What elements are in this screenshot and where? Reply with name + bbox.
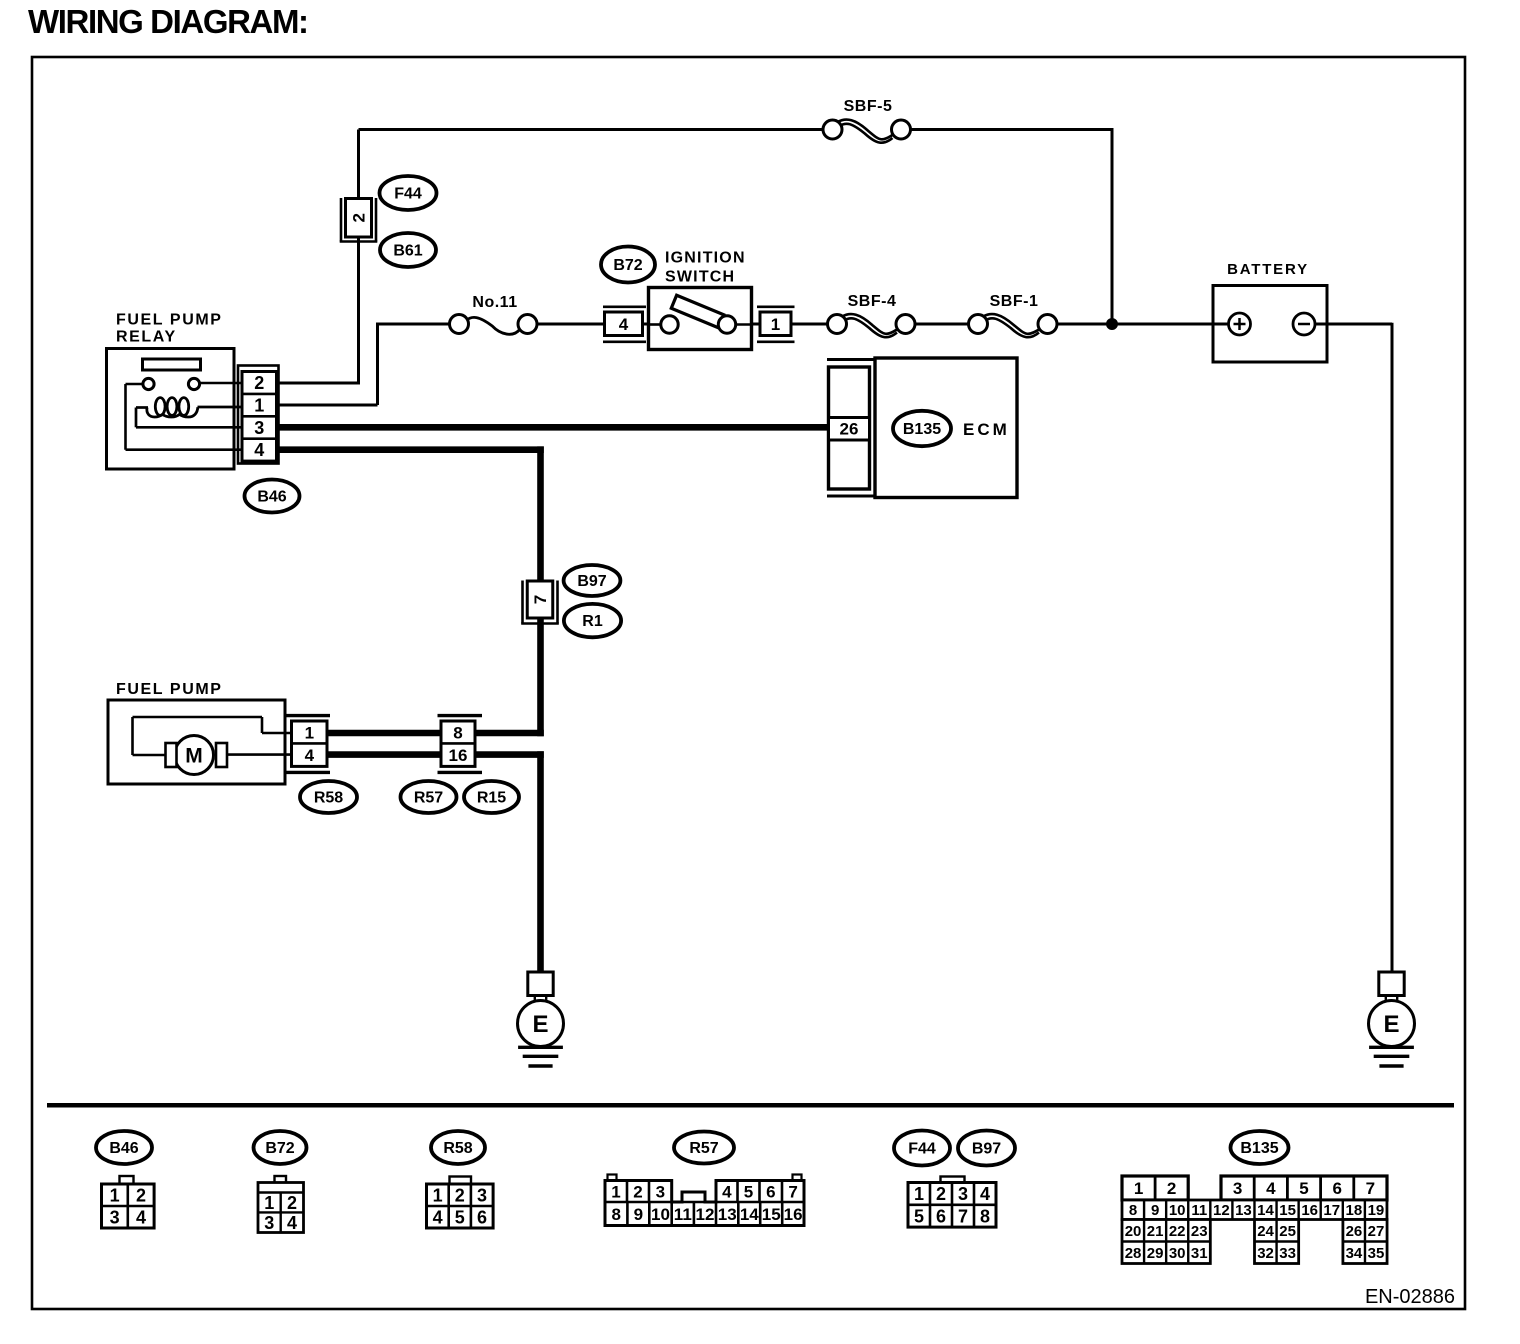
svg-text:B72: B72 xyxy=(265,1140,294,1157)
svg-text:4: 4 xyxy=(722,1183,732,1202)
svg-text:1: 1 xyxy=(433,1185,443,1205)
svg-text:F44: F44 xyxy=(394,186,422,203)
svg-text:4: 4 xyxy=(619,315,629,334)
svg-text:6: 6 xyxy=(936,1206,946,1226)
svg-text:B46: B46 xyxy=(257,489,286,506)
svg-text:34: 34 xyxy=(1346,1245,1363,1262)
svg-text:5: 5 xyxy=(1299,1179,1308,1198)
svg-text:16: 16 xyxy=(784,1205,803,1224)
svg-text:1: 1 xyxy=(914,1184,924,1204)
svg-text:2: 2 xyxy=(136,1185,146,1205)
svg-text:1: 1 xyxy=(264,1193,274,1213)
svg-text:2: 2 xyxy=(287,1193,297,1213)
svg-text:6: 6 xyxy=(766,1183,775,1202)
svg-text:11: 11 xyxy=(674,1205,692,1224)
svg-text:6: 6 xyxy=(477,1207,487,1227)
svg-text:7: 7 xyxy=(1366,1179,1375,1198)
svg-text:4: 4 xyxy=(980,1184,990,1204)
svg-text:IGNITION: IGNITION xyxy=(665,250,746,267)
svg-text:B72: B72 xyxy=(613,257,642,274)
svg-text:9: 9 xyxy=(1151,1202,1159,1219)
svg-text:17: 17 xyxy=(1323,1202,1340,1219)
svg-text:2: 2 xyxy=(1167,1179,1176,1198)
svg-text:1: 1 xyxy=(611,1183,620,1202)
svg-text:B97: B97 xyxy=(972,1141,1001,1158)
svg-text:6: 6 xyxy=(1332,1179,1341,1198)
svg-text:31: 31 xyxy=(1191,1245,1208,1262)
svg-text:FUEL PUMP: FUEL PUMP xyxy=(116,681,223,698)
svg-text:2: 2 xyxy=(633,1183,642,1202)
svg-text:35: 35 xyxy=(1368,1245,1385,1262)
svg-text:33: 33 xyxy=(1279,1245,1296,1262)
svg-text:24: 24 xyxy=(1257,1223,1274,1240)
svg-text:WIRING DIAGRAM:: WIRING DIAGRAM: xyxy=(28,3,308,40)
svg-text:8: 8 xyxy=(453,724,462,743)
svg-text:9: 9 xyxy=(634,1205,643,1224)
svg-text:12: 12 xyxy=(696,1205,715,1224)
svg-text:18: 18 xyxy=(1345,1202,1362,1219)
svg-text:26: 26 xyxy=(1346,1223,1363,1240)
svg-text:B97: B97 xyxy=(577,573,606,590)
svg-text:No.11: No.11 xyxy=(472,294,517,311)
svg-text:25: 25 xyxy=(1279,1223,1296,1240)
svg-text:27: 27 xyxy=(1368,1223,1385,1240)
svg-text:7: 7 xyxy=(958,1206,968,1226)
svg-text:16: 16 xyxy=(1301,1202,1318,1219)
svg-text:R58: R58 xyxy=(443,1140,472,1157)
svg-text:1: 1 xyxy=(305,724,314,743)
svg-text:R57: R57 xyxy=(689,1140,718,1157)
svg-text:3: 3 xyxy=(477,1185,487,1205)
svg-text:10: 10 xyxy=(1169,1202,1186,1219)
svg-text:3: 3 xyxy=(254,418,264,438)
svg-text:14: 14 xyxy=(1257,1202,1274,1219)
svg-text:4: 4 xyxy=(305,746,315,765)
svg-text:R1: R1 xyxy=(582,613,603,630)
svg-text:21: 21 xyxy=(1147,1223,1164,1240)
svg-text:8: 8 xyxy=(611,1205,620,1224)
svg-text:26: 26 xyxy=(840,420,859,439)
svg-text:10: 10 xyxy=(651,1205,670,1224)
svg-text:15: 15 xyxy=(1279,1202,1296,1219)
svg-text:32: 32 xyxy=(1257,1245,1274,1262)
svg-text:FUEL PUMP: FUEL PUMP xyxy=(116,312,223,329)
svg-text:SBF-5: SBF-5 xyxy=(844,98,893,115)
svg-text:EN-02886: EN-02886 xyxy=(1365,1286,1455,1308)
svg-text:3: 3 xyxy=(958,1184,968,1204)
svg-text:E: E xyxy=(1383,1011,1399,1038)
svg-text:7: 7 xyxy=(531,595,550,604)
svg-text:11: 11 xyxy=(1191,1202,1207,1219)
svg-text:19: 19 xyxy=(1368,1202,1385,1219)
svg-text:5: 5 xyxy=(914,1206,924,1226)
svg-text:R57: R57 xyxy=(414,790,443,807)
svg-text:R15: R15 xyxy=(477,790,506,807)
svg-text:2: 2 xyxy=(455,1185,465,1205)
svg-text:14: 14 xyxy=(740,1205,759,1224)
svg-text:5: 5 xyxy=(744,1183,753,1202)
svg-text:23: 23 xyxy=(1191,1223,1208,1240)
svg-text:F44: F44 xyxy=(908,1141,936,1158)
svg-text:3: 3 xyxy=(1233,1179,1242,1198)
svg-text:B46: B46 xyxy=(109,1140,138,1157)
svg-text:28: 28 xyxy=(1125,1245,1142,1262)
svg-text:2: 2 xyxy=(350,213,369,222)
svg-text:B61: B61 xyxy=(393,243,422,260)
svg-text:BATTERY: BATTERY xyxy=(1227,261,1309,278)
svg-text:2: 2 xyxy=(936,1184,946,1204)
svg-text:5: 5 xyxy=(455,1207,465,1227)
svg-text:8: 8 xyxy=(1129,1202,1137,1219)
svg-text:13: 13 xyxy=(718,1205,737,1224)
svg-text:7: 7 xyxy=(788,1183,797,1202)
svg-text:SWITCH: SWITCH xyxy=(665,269,735,286)
svg-text:4: 4 xyxy=(433,1207,443,1227)
svg-text:20: 20 xyxy=(1125,1223,1142,1240)
svg-text:4: 4 xyxy=(1266,1179,1276,1198)
svg-text:30: 30 xyxy=(1169,1245,1186,1262)
svg-text:4: 4 xyxy=(254,440,264,460)
svg-text:R58: R58 xyxy=(314,790,343,807)
svg-text:3: 3 xyxy=(264,1213,274,1233)
svg-text:SBF-1: SBF-1 xyxy=(990,293,1039,310)
svg-text:RELAY: RELAY xyxy=(116,329,177,346)
svg-text:22: 22 xyxy=(1169,1223,1186,1240)
svg-text:8: 8 xyxy=(980,1206,990,1226)
svg-text:ECM: ECM xyxy=(963,420,1010,439)
svg-text:15: 15 xyxy=(762,1205,781,1224)
svg-text:13: 13 xyxy=(1235,1202,1252,1219)
svg-text:1: 1 xyxy=(1134,1179,1143,1198)
svg-text:3: 3 xyxy=(110,1207,120,1227)
svg-text:4: 4 xyxy=(136,1207,146,1227)
svg-text:2: 2 xyxy=(254,373,264,393)
svg-text:B135: B135 xyxy=(903,421,941,438)
svg-text:16: 16 xyxy=(449,746,468,765)
svg-text:M: M xyxy=(185,745,203,768)
svg-text:B135: B135 xyxy=(1240,1140,1278,1157)
svg-text:1: 1 xyxy=(110,1185,120,1205)
svg-text:3: 3 xyxy=(656,1183,665,1202)
svg-text:SBF-4: SBF-4 xyxy=(848,293,897,310)
svg-text:1: 1 xyxy=(771,315,780,334)
svg-text:E: E xyxy=(532,1011,548,1038)
svg-text:4: 4 xyxy=(287,1213,297,1233)
svg-text:29: 29 xyxy=(1147,1245,1164,1262)
svg-text:1: 1 xyxy=(254,395,264,415)
svg-text:12: 12 xyxy=(1213,1202,1230,1219)
